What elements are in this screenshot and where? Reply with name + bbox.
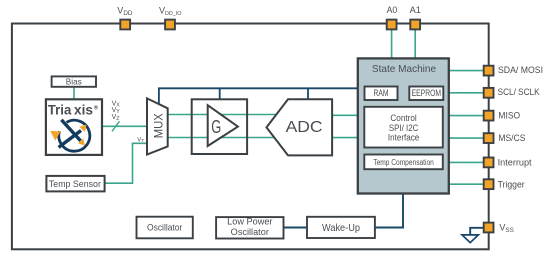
svg-text:Control: Control	[390, 113, 416, 123]
bus drop to ADC	[307, 88, 309, 99]
pin Trigger	[484, 179, 494, 189]
svg-text:xis: xis	[74, 102, 93, 117]
wire State Machine to SDA/MOSI	[449, 70, 483, 72]
label MISO	[498, 111, 520, 121]
wire Temp Sensor to MUX (VT)	[105, 143, 147, 183]
pin SDA/MOSI	[484, 66, 494, 76]
svg-text:Wake-Up: Wake-Up	[322, 223, 361, 234]
Low Power Oscillator box	[216, 217, 283, 239]
svg-text:Interface: Interface	[388, 132, 419, 142]
svg-text:SDA/ MOSI: SDA/ MOSI	[498, 65, 543, 75]
label MS/CS	[498, 133, 525, 143]
svg-text:A0: A0	[387, 5, 398, 15]
label VDD	[117, 6, 133, 18]
svg-text:MS/CS: MS/CS	[498, 133, 525, 143]
pin VDD_IO	[165, 20, 175, 30]
label A0	[387, 5, 398, 15]
svg-text:Bias: Bias	[66, 76, 82, 86]
svg-text:Temp Sensor: Temp Sensor	[49, 179, 101, 190]
svg-text:Oscillator: Oscillator	[231, 227, 269, 237]
svg-text:VT: VT	[137, 137, 144, 143]
pin Interrupt	[484, 158, 494, 168]
ground symbol	[462, 228, 483, 243]
svg-text:State Machine: State Machine	[372, 63, 436, 75]
svg-text:MISO: MISO	[498, 111, 520, 121]
Bias box	[52, 76, 96, 86]
wire Bias to Triaxis	[73, 87, 75, 101]
svg-text:G: G	[211, 116, 221, 137]
Temp Sensor box	[46, 176, 104, 192]
svg-text:ADC: ADC	[286, 119, 323, 136]
EEPROM box	[409, 87, 443, 101]
wire State Machine to SCL/SCLK	[449, 92, 483, 94]
label Trigger	[498, 179, 525, 189]
label Vy	[112, 107, 121, 115]
Wake-Up box	[307, 217, 375, 238]
ADC	[267, 99, 333, 155]
pin SCL/SCLK	[484, 88, 494, 98]
svg-text:EEPROM: EEPROM	[412, 88, 442, 98]
wire Wake-Up to State Machine	[375, 193, 403, 228]
label VDD_IO	[159, 6, 182, 18]
label VT	[137, 137, 144, 143]
svg-text:VZ: VZ	[112, 114, 120, 122]
wire State Machine to Trigger	[449, 183, 483, 185]
pin MISO	[484, 111, 494, 121]
label SCL/SCLK	[498, 87, 540, 97]
amplifier G box	[192, 99, 247, 154]
wire A0 to State Machine	[391, 30, 393, 59]
wire ADC to State Machine lower	[332, 137, 357, 139]
chip boundary	[12, 24, 489, 250]
svg-text:MUX: MUX	[151, 113, 165, 138]
svg-text:Interrupt: Interrupt	[498, 157, 532, 167]
label SDA/MOSI	[498, 65, 543, 75]
svg-text:Trigger: Trigger	[498, 179, 525, 189]
wire Triaxis to MUX (Vx Vy Vz bus)	[102, 125, 147, 127]
Control SPI/I2C Interface box	[364, 107, 443, 148]
label Vz	[112, 114, 120, 122]
svg-text:Oscillator: Oscillator	[147, 222, 182, 233]
pin VDD	[120, 20, 130, 30]
svg-text:Temp Compensation: Temp Compensation	[373, 158, 434, 167]
svg-text:Tria: Tria	[48, 102, 72, 117]
svg-text:SCL/ SCLK: SCL/ SCLK	[498, 87, 540, 97]
wire MUX to ADC upper	[168, 114, 278, 116]
State Machine block	[358, 58, 449, 193]
svg-text:Low Power: Low Power	[227, 217, 272, 227]
Oscillator box	[137, 217, 193, 239]
pin VSS	[484, 223, 494, 233]
label A1	[410, 5, 421, 15]
wire State Machine to MISO	[449, 115, 483, 117]
svg-text:A1: A1	[410, 5, 421, 15]
Triaxis sensor box	[46, 99, 102, 155]
label Vx	[112, 100, 121, 108]
pin A0	[387, 20, 397, 30]
wire A1 to State Machine	[414, 30, 416, 59]
wire State Machine to MS/CS	[449, 137, 483, 139]
pin MS/CS	[484, 133, 494, 143]
Triaxis logo	[50, 120, 90, 151]
bus drop to G	[219, 88, 221, 99]
label VSS	[499, 223, 513, 235]
MUX	[147, 98, 168, 154]
pin A1	[410, 20, 420, 30]
wire ADC to State Machine upper	[332, 114, 357, 116]
bus slash mark	[112, 121, 120, 131]
wire State Machine to Interrupt	[449, 161, 483, 163]
wire LPO to Wake-Up	[284, 227, 308, 229]
svg-text:RAM: RAM	[374, 88, 389, 98]
svg-text:®: ®	[94, 105, 99, 112]
wire MUX to ADC lower	[168, 137, 277, 139]
Temp Compensation box	[364, 155, 443, 170]
navy control bus	[159, 88, 358, 104]
label Interrupt	[498, 157, 532, 167]
RAM box	[365, 87, 398, 101]
